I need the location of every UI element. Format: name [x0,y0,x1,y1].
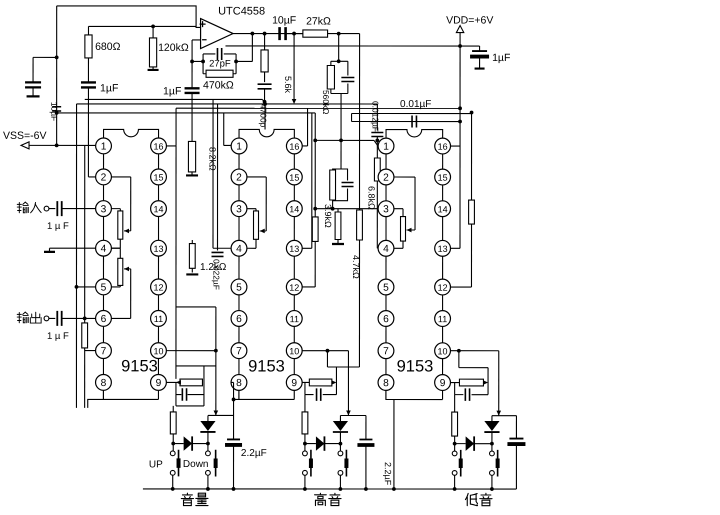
resistor 680ohm [87,26,89,35]
U3 pin8 hook to 2.2uF line [234,391,239,400]
svg-text:5: 5 [383,283,389,294]
svg-text:1µF: 1µF [492,52,510,64]
svg-text:1: 1 [383,142,389,153]
svg-text:2: 2 [101,173,107,184]
svg-text:7: 7 [101,346,107,357]
svg-text:680Ω: 680Ω [95,41,121,53]
capacitor 1uF VDD decoupling [472,50,487,52]
svg-text:8: 8 [236,378,242,389]
svg-text:2.2µF: 2.2µF [241,448,267,459]
RC network left of U4 [333,169,341,170]
wire 27k output to right corner [328,33,360,35]
RC lowpass at U2 pin9 [167,381,180,383]
resistor feedback U2 output to pin7 [82,323,88,348]
svg-text:7: 7 [236,346,242,357]
RC lowpass at U4 pin9 [451,382,460,384]
svg-text:470kΩ: 470kΩ [203,79,234,91]
wire bass buttons to rail [454,475,456,489]
capacitor 2.2uF treble [365,416,367,440]
pushbutton UP [172,444,174,451]
resistor 27kohm [286,33,303,35]
svg-text:6: 6 [101,314,107,325]
svg-text:9: 9 [156,378,162,389]
svg-text:10µF: 10µF [272,14,296,26]
label volume chinese [181,493,193,505]
svg-text:1.2kΩ: 1.2kΩ [200,262,227,273]
diode D1 bass [455,443,466,445]
svg-text:8.2kΩ: 8.2kΩ [208,147,218,171]
capacitor 1uF input [49,208,55,210]
resistor 4.7kohm on treble feeder [357,210,363,240]
plus sign inside op-amp [200,23,206,25]
IC U2 9153 body [104,129,159,137]
ground bar below top-left capacitor [27,95,40,97]
svg-text:1: 1 [101,142,107,153]
junction after 10uF [292,32,296,36]
ground bar below 3.9k [332,243,344,245]
wire feedback to output [236,60,252,62]
minus sign inside op-amp [202,39,207,41]
wire 4700p node down from bus junction [264,104,266,129]
label bass chinese [465,493,477,505]
svg-text:14: 14 [438,204,448,214]
output terminal [44,316,49,321]
feedback node wire to RC network [192,60,203,62]
bus line B3 pin16 chain [176,107,460,109]
wire 0.022uF feeder from B2 [217,104,219,251]
svg-text:Down: Down [183,459,209,470]
jog RC right rail U2 [176,365,216,367]
pushbutton treble up [339,444,341,451]
bus line B1 [85,98,263,100]
resistor 560k network loop top [331,60,348,62]
svg-text:4: 4 [383,244,389,255]
capacitor 0.012uF plates [371,132,383,134]
VDD arrow terminal [456,26,463,33]
node junction dots on 10uF line [55,55,59,59]
capacitor 2.2uF bass [515,416,517,439]
svg-text:1 µ F: 1 µ F [47,331,69,342]
label output chinese [17,312,28,323]
VDD bus line y113.5 [352,112,472,114]
svg-text:6: 6 [383,314,389,325]
pushbutton bass down [454,444,456,451]
IC U3 pins right [286,138,302,154]
diode D2 bass vertical [492,415,517,417]
ground bar below VDD cap [475,67,485,69]
wire U3 pin13 feeder from B4 [311,113,313,248]
wire U3 pin12 feeder from B4 end [314,113,316,217]
op-amp U1 UTC4558 triangle [201,19,234,49]
resistor to diode junction U2 [172,406,174,412]
jog pin10 to RC right rail U3 [326,351,328,367]
capacitor 1uF at inverting input [185,87,200,89]
ground bar below 120k [148,69,159,71]
wire top rail from 10uF cap to op-amp noninverting input [57,6,201,28]
wire U3 pin16 feeder from B3 [307,108,309,146]
capacitor below 5.6k [258,83,272,85]
svg-text:14: 14 [289,204,299,214]
svg-text:4700p: 4700p [259,104,269,128]
diode D2 treble vertical [340,414,366,416]
resistor 6.8kohm [374,158,380,181]
capacitor 10uF output coupling [278,27,281,40]
IC U2 pins right [151,138,167,154]
svg-text:8: 8 [383,378,389,389]
wire from 27k corner down to treble network [359,34,361,210]
wire pin4 to ground [50,247,96,249]
svg-text:7: 7 [383,346,389,357]
potentiometer between U4 pin3 pin4 [394,208,403,210]
svg-text:9153: 9153 [121,357,158,375]
svg-text:5.6k: 5.6k [283,76,293,94]
svg-text:3: 3 [383,204,389,215]
svg-text:5: 5 [101,283,107,294]
ground bar below resistor [186,174,198,176]
capacitor 1uF below 680ohm [87,58,89,82]
diode D1 volume [173,443,183,445]
capacitor parallel with 560k [347,61,349,75]
svg-text:9: 9 [440,378,446,389]
svg-text:16: 16 [289,142,299,152]
wire input cap to pin3 [62,208,96,210]
svg-text:12: 12 [153,283,163,293]
svg-text:2: 2 [383,173,389,184]
svg-text:2: 2 [236,173,242,184]
svg-text:9: 9 [291,378,297,389]
feedback network rails [202,54,204,74]
wire pin10 U3 to diode network [302,350,348,352]
svg-text:12: 12 [438,283,448,293]
svg-text:0.01µF: 0.01µF [400,99,431,110]
capacitor 0.022uF plates [212,251,224,253]
diode D1 treble [305,443,316,445]
wire U4 pin3 row [315,208,378,210]
svg-text:13: 13 [438,244,448,254]
wire cap to bus [264,89,266,104]
svg-text:1: 1 [236,142,242,153]
wire output cap to pin6 [62,317,96,319]
wire 680 top rail [88,25,196,27]
wire U2 pin16 chain vertical [175,146,177,379]
svg-text:15: 15 [289,173,299,183]
svg-text:13: 13 [289,244,299,254]
svg-text:UTC4558: UTC4558 [218,5,265,17]
svg-text:0.012µF: 0.012µF [371,101,381,132]
resistor 120kohm [152,26,154,38]
wire VSS rail to pin1 of U2 [29,144,95,146]
wiper from U3 pin2 [247,176,266,178]
wire VDD down [459,33,461,249]
node line y140 between networks [315,139,374,141]
IC U3 9153 body [239,129,294,137]
wire U3 pin1 feeder from B4 [223,113,225,145]
svg-text:2.2µF: 2.2µF [383,462,393,486]
svg-text:11: 11 [290,314,299,324]
ground bar below 1.2k [186,273,198,275]
svg-text:VSS=-6V: VSS=-6V [3,130,46,142]
wire pin7 from feedback resistor [85,350,96,352]
resistor 470kohm in feedback [203,73,206,75]
ground rail bottom [143,488,516,490]
U2 pin8 hook [88,391,104,408]
wire U1 pin16 feeder from B3 [175,108,177,146]
svg-text:10: 10 [153,346,163,356]
resistor 5.6k chain from output [264,34,266,50]
svg-text:1 µ F: 1 µ F [47,221,69,232]
potentiometer R-B between pin4 pin5 [112,247,121,249]
resistor to diode junction U3 [304,395,306,412]
svg-text:12: 12 [289,283,299,293]
capacitor 0.01uF [411,116,413,128]
op-amp output wire to 27k [233,33,303,35]
capacitor 10uF plates [52,106,61,108]
capacitor 1uF output [49,317,55,319]
svg-text:4: 4 [101,244,107,255]
svg-text:27kΩ: 27kΩ [306,15,331,27]
wire pin10 U2 to diode network [167,350,216,352]
potentiometer between U3 pin3 pin4 [247,208,256,210]
svg-text:1µF: 1µF [100,82,118,94]
VDD horizontal rail y46 [225,45,479,47]
IC U4 9153 body [386,130,443,138]
wire treble buttons to rail [304,475,306,489]
jog to pin10 feeder [176,306,216,308]
capacitor 2.2uF volume [231,381,234,383]
label input chinese [17,202,28,213]
wiper from U4 pin2 [394,176,415,178]
pushbutton treble down [304,444,306,451]
resistor below 1uF to ground [188,141,195,172]
RC lowpass at U3 pin9 [302,381,309,383]
diode D2 volume vertical [208,414,234,416]
svg-text:9153: 9153 [248,357,285,375]
svg-text:10: 10 [438,346,448,356]
U4 pin8 hook to rail [386,391,394,489]
resistor on U3 pin12 feeder [312,217,318,242]
wire 8.2k feeder from B1 down to U3 pin4 [212,99,214,248]
svg-text:11: 11 [438,314,447,324]
svg-text:4: 4 [236,244,242,255]
wire 10uF junction down to bus with arrow [293,34,295,102]
bus line B2 [77,103,378,105]
svg-text:3: 3 [101,204,107,215]
resistor 3.9k to ground [331,207,335,211]
resistor 1.2kohm [191,240,193,244]
svg-text:11: 11 [154,314,163,324]
svg-text:15: 15 [438,173,448,183]
wire 1uF down to pin2 of U2 [87,87,89,176]
wiper from pin2 to R-A [112,176,131,178]
pushbutton Down [207,444,209,451]
svg-text:UP: UP [149,459,163,470]
svg-text:4.7kΩ: 4.7kΩ [351,255,361,279]
bus line B4 [57,112,316,114]
svg-text:14: 14 [154,204,164,214]
wire pin5 to B2 feeder [76,286,95,288]
wire pin12 U4 feeder with resistor [471,113,473,200]
wire pin16 pin13 U4 feeder from VDD drop [451,145,460,147]
IC U4 pins left [378,138,394,154]
svg-text:13: 13 [153,244,163,254]
svg-text:6: 6 [236,314,242,325]
pushbutton bass up [491,444,493,451]
resistor to diode junction U4 [454,395,456,412]
wire VSS feeder down through feedback resistor to U2 pin7 [84,145,86,322]
wire VDD bus corner at x351 [351,113,353,121]
IC U4 pins right [435,138,451,154]
wire buttons to ground rail [172,475,174,489]
label treble chinese [315,493,327,505]
wire pin10 U4 to diode network [451,350,499,352]
svg-text:560kΩ: 560kΩ [321,90,331,114]
svg-text:1µF: 1µF [163,85,181,97]
capacitor C-in top-left to ground [33,56,57,58]
wire 1uF down to resistor [191,93,193,141]
svg-text:27pF: 27pF [209,58,231,69]
capacitor 10uF vertical line VSS filter [56,6,58,146]
svg-text:9153: 9153 [397,358,434,376]
svg-text:8: 8 [101,378,107,389]
svg-text:5: 5 [236,283,242,294]
svg-text:16: 16 [438,142,448,152]
jog pin10 to RC right rail U4 [458,351,460,368]
svg-text:3: 3 [236,204,242,215]
capacitor parallel RC U4 [341,169,348,181]
resistor right of U4 [469,200,475,224]
wiper from pin6 to R-B [112,317,131,319]
ground bar at pin4 [44,251,55,253]
svg-text:16: 16 [154,142,164,152]
IC U2 pins left [96,138,112,154]
resistor 560kohm vertical [330,61,332,65]
wire inverting input [192,39,201,41]
svg-text:VDD=+6V: VDD=+6V [446,15,493,27]
svg-text:6.8kΩ: 6.8kΩ [367,186,377,210]
svg-text:15: 15 [154,173,164,183]
wire output drop to 560k network [338,34,340,62]
capacitor 27pF in feedback [203,53,215,55]
wire 0.012uF chain from B2 down to U4 pin4 [376,104,378,130]
svg-text:10: 10 [289,346,299,356]
wire B2 feeder down to U2 pin5 [75,104,77,408]
VSS arrow terminal [21,142,29,149]
560k network bottom wire [331,92,348,94]
input terminal [44,206,49,211]
wire 0.01uF line y121.5 [352,120,461,122]
IC U3 pins left [231,138,247,154]
wire 560k network down to node line [340,93,342,140]
potentiometer R-A between pin3 pin4 [112,208,121,210]
svg-text:120kΩ: 120kΩ [158,42,189,54]
